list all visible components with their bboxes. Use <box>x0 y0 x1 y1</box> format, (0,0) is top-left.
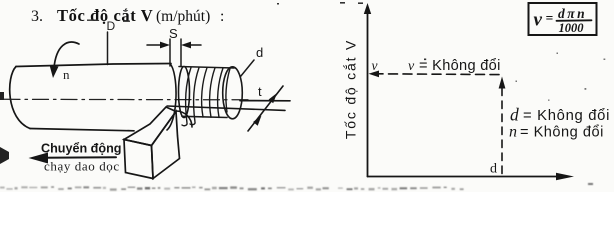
bottom scan noise row <box>0 183 593 191</box>
root line right of thread <box>167 106 285 110</box>
t dimension arrowhead upper <box>269 93 277 103</box>
thread start ellipse <box>179 67 190 118</box>
surface line right of thread <box>240 100 290 102</box>
svg-text:v: v <box>372 58 378 73</box>
svg-text:(m/phút): (m/phút) <box>156 8 210 25</box>
svg-text:d: d <box>510 105 519 125</box>
tool tip fillet <box>176 111 192 127</box>
svg-text:n: n <box>63 67 70 82</box>
svg-text:n: n <box>509 124 517 141</box>
workpiece cylinder bottom edge <box>30 129 134 131</box>
svg-text::: : <box>220 8 224 25</box>
tool box right face <box>152 112 180 179</box>
svg-text:v: v <box>408 59 415 74</box>
dashed d vertical line <box>499 77 506 176</box>
svg-text:dπn: dπn <box>558 6 587 21</box>
svg-text:d: d <box>256 45 263 60</box>
svg-text:Chuyển động: Chuyển động <box>41 142 121 156</box>
svg-text:Tốc độ cắt V: Tốc độ cắt V <box>57 6 153 25</box>
label D <box>87 19 130 33</box>
feed arrow <box>29 153 117 164</box>
S arrow right <box>181 42 201 49</box>
formula box <box>529 3 597 35</box>
svg-text:t: t <box>258 84 262 99</box>
shoulder arc (right end of big cylinder) <box>167 64 176 131</box>
scan specks right area <box>424 53 605 101</box>
svg-text:chạy dao dọc: chạy dao dọc <box>44 159 120 174</box>
left margin mark <box>0 92 4 100</box>
fraction bar <box>557 19 592 22</box>
svg-text:d: d <box>490 162 497 177</box>
svg-text:1000: 1000 <box>559 21 585 35</box>
centerline (dash-dot axis) <box>4 98 251 101</box>
leader line from D <box>107 32 109 65</box>
workpiece cylinder top edge <box>16 64 171 67</box>
svg-text:D: D <box>107 19 116 33</box>
label n = Không đổi <box>509 124 604 141</box>
leader line from d <box>241 60 255 77</box>
left margin blob <box>0 147 9 164</box>
thread top edge <box>179 67 234 69</box>
tool box front face <box>124 140 153 179</box>
thread helix coils <box>182 68 230 126</box>
t dimension arrowhead lower <box>253 116 261 126</box>
svg-text:=: = <box>546 11 554 26</box>
thread right end ellipse <box>223 67 243 119</box>
svg-text:= Không đổi: = Không đổi <box>520 125 604 141</box>
S extension line right <box>180 39 182 66</box>
thread bottom edge <box>182 116 227 117</box>
rotation arrow n <box>50 42 80 78</box>
svg-text:3.: 3. <box>31 8 43 25</box>
stray scan specks top <box>277 2 363 5</box>
label d = Không đổi <box>510 105 610 125</box>
t dimension oblique line <box>248 86 283 131</box>
svg-text:= Không đổi: = Không đổi <box>523 108 610 124</box>
workpiece cylinder left end arc <box>10 67 30 129</box>
S extension line left <box>169 39 171 66</box>
svg-text:Tốc độ cắt V: Tốc độ cắt V <box>343 39 359 139</box>
S arrow left <box>147 42 170 49</box>
title: 3. Tốc độ cắt V (m/phút) : <box>31 6 224 25</box>
tool box top face <box>124 107 176 146</box>
graph x-axis <box>368 173 575 180</box>
svg-text:v: v <box>534 10 543 31</box>
dashed v level line <box>369 71 504 78</box>
label v = Không đổi <box>408 58 501 74</box>
formula v = dπn/1000 <box>534 6 588 35</box>
graph y-axis <box>364 3 371 177</box>
svg-text:= Không đổi: = Không đổi <box>419 58 501 74</box>
